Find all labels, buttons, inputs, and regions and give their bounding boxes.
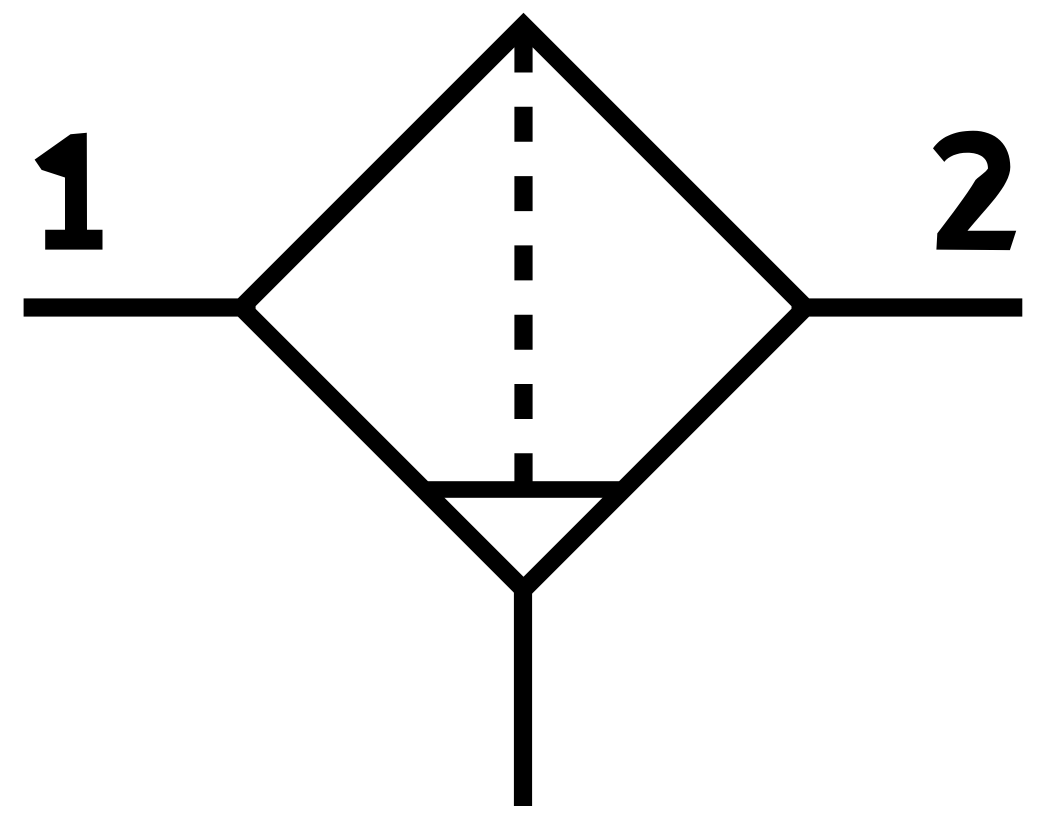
port label 1 bbox=[35, 133, 103, 250]
filter body (diamond) bbox=[242, 26, 806, 590]
wire port 2 (right) bbox=[792, 298, 1023, 316]
sump chord bbox=[424, 481, 623, 498]
dashed centerline bbox=[514, 38, 532, 489]
drain line bbox=[514, 585, 532, 806]
port label 2 bbox=[933, 131, 1016, 250]
wire port 1 (left) bbox=[24, 298, 256, 316]
